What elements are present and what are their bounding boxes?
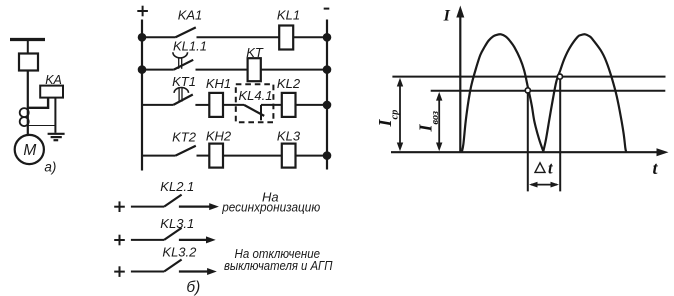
wire — [27, 71, 29, 136]
svg-text:KL3.1: KL3.1 — [160, 216, 194, 231]
svg-text:KH2: KH2 — [206, 128, 232, 143]
dashed box KL4.1 — [236, 84, 274, 122]
right rail — [326, 20, 328, 170]
marker line at re-pickup — [559, 79, 561, 191]
wire — [293, 36, 327, 38]
ground — [48, 134, 65, 140]
level line I sr — [392, 76, 665, 78]
node row1 left — [139, 34, 146, 41]
delta t dimension arrow — [529, 182, 559, 188]
node row4 right — [324, 152, 331, 159]
arrow row B — [179, 236, 216, 243]
svg-text:KL2: KL2 — [277, 76, 301, 91]
contact KL3.2 — [131, 260, 182, 272]
svg-text:KL3: KL3 — [277, 128, 301, 143]
relay coil KL1 — [279, 26, 293, 50]
svg-text:KH1: KH1 — [206, 76, 231, 91]
wire — [197, 155, 210, 157]
relay coil KH1 — [209, 93, 223, 117]
svg-text:а): а) — [44, 160, 56, 175]
svg-text:KT1: KT1 — [172, 74, 196, 89]
wire — [296, 155, 328, 157]
svg-text:KT2: KT2 — [172, 130, 197, 145]
plus terminal — [137, 6, 148, 17]
svg-text:Iср: Iср — [375, 110, 400, 128]
arrow row C — [179, 268, 217, 275]
bus bar — [10, 38, 45, 41]
current transformer winding — [20, 108, 29, 126]
wire — [196, 69, 248, 71]
plus terminal row C — [114, 266, 125, 277]
wire — [223, 104, 244, 106]
relay coil KH2 — [209, 144, 223, 168]
y axis I — [456, 6, 464, 153]
node row2 left — [139, 66, 146, 73]
wire — [261, 69, 327, 71]
svg-text:KA1: KA1 — [178, 8, 203, 23]
wire — [28, 125, 56, 127]
marker line at drop-out — [527, 93, 529, 192]
wire — [197, 36, 280, 38]
left rail — [141, 20, 143, 171]
node drop-out point — [525, 88, 530, 93]
svg-text:KL4.1: KL4.1 — [239, 88, 273, 103]
wire — [28, 98, 48, 108]
node row1 right — [324, 34, 331, 41]
wire — [261, 104, 282, 106]
relay coil KL2 — [282, 93, 296, 117]
contact KT1 — [142, 88, 193, 105]
svg-text:ресинхронизацию: ресинхронизацию — [221, 201, 320, 215]
node row2 right — [324, 66, 331, 73]
minus terminal — [324, 8, 330, 10]
wire — [223, 155, 282, 157]
dimension arrow I sr — [397, 78, 403, 151]
current curve hump 2 — [543, 34, 626, 152]
arrow to resync — [179, 203, 219, 210]
svg-text:Iвоз: Iвоз — [416, 111, 442, 133]
current curve hump 1 — [462, 34, 544, 152]
svg-text:t: t — [652, 158, 658, 178]
svg-text:М: М — [23, 142, 36, 159]
wire — [54, 98, 56, 133]
contact KL4.1 — [244, 105, 264, 120]
contact KT2 — [142, 146, 196, 156]
contact KL3.1 — [131, 228, 182, 240]
relay KA — [40, 86, 63, 98]
svg-text:I: I — [443, 8, 451, 25]
node row3 right — [324, 102, 331, 109]
circuit breaker — [19, 54, 38, 71]
level line I voz — [431, 90, 666, 92]
contact KA1 — [142, 27, 196, 37]
svg-text:выключателя и АГП: выключателя и АГП — [224, 259, 333, 273]
motor M — [15, 135, 44, 164]
svg-text:KL3.2: KL3.2 — [162, 245, 197, 260]
svg-text:KL2.1: KL2.1 — [160, 179, 194, 194]
plus terminal row A — [114, 201, 125, 212]
relay coil KL3 — [282, 144, 296, 168]
plus terminal row B — [114, 235, 125, 246]
svg-text:KL1: KL1 — [277, 8, 300, 23]
contact KL2.1 — [131, 195, 182, 207]
wire — [296, 104, 328, 106]
label delta t — [535, 159, 553, 178]
node re-pickup point — [557, 74, 562, 79]
relay coil KT — [248, 58, 261, 81]
x axis t — [391, 148, 669, 156]
dimension arrow I voz — [436, 92, 442, 151]
svg-text:t: t — [548, 159, 553, 178]
wire — [195, 104, 209, 106]
contact KL1.1 — [142, 52, 193, 69]
svg-text:KL1.1: KL1.1 — [173, 38, 207, 53]
svg-text:б): б) — [186, 279, 200, 296]
wire — [27, 41, 29, 54]
